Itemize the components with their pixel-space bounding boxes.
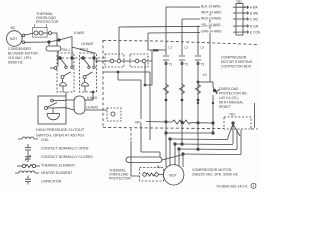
leader lines from thermal text	[34, 24, 35, 28]
TB1 aux dashed boxlet	[107, 108, 121, 121]
relay contact dashed box K1-2	[130, 54, 148, 67]
power wire C y19	[182, 18, 246, 20]
svg-text:COMPRESSOR MOTOR,: COMPRESSOR MOTOR,	[192, 168, 232, 172]
blower motor terminal bottom	[22, 41, 25, 44]
solid vertical right	[254, 103, 256, 128]
svg-text:MOT: MOT	[169, 173, 177, 177]
compressor motor circle	[164, 165, 184, 185]
svg-text:HR1: HR1	[135, 120, 142, 124]
svg-text:6 AWG: 6 AWG	[74, 31, 85, 35]
svg-text:K1: K1	[203, 73, 207, 77]
svg-text:1: 1	[253, 184, 255, 188]
svg-text:CONTACT NORMALLY CLOSED: CONTACT NORMALLY CLOSED	[41, 155, 93, 159]
relay contact dashed box K1-1	[105, 54, 124, 67]
svg-text:PROTECTOR: PROTECTOR	[109, 177, 131, 181]
svg-text:TB3: TB3	[229, 113, 235, 117]
junction dots rows	[165, 132, 167, 134]
thermal OL protector bracket box	[33, 28, 48, 38]
svg-text:B ØB: B ØB	[250, 12, 259, 16]
svg-text:TB1-2: TB1-2	[80, 48, 89, 52]
row wire 4	[179, 148, 237, 151]
contactor pole L3	[197, 26, 199, 150]
legend: contact NO symbol	[25, 144, 31, 153]
high pressure switch solid box	[38, 96, 66, 124]
svg-text:D GR: D GR	[250, 25, 259, 29]
svg-text:A ØA: A ØA	[250, 6, 258, 10]
svg-text:SWITCH, OPEN AT 450 PSI: SWITCH, OPEN AT 450 PSI	[36, 134, 84, 138]
contactor pole L1	[165, 7, 167, 167]
svg-text:C ØC: C ØC	[250, 18, 259, 22]
svg-text:B1: B1	[157, 165, 161, 169]
wire y110 through capsule	[66, 108, 107, 110]
svg-text:THERMAL ELEMENT: THERMAL ELEMENT	[41, 164, 76, 168]
dashed bus line y58	[57, 57, 104, 59]
svg-text:CAPACITOR: CAPACITOR	[41, 180, 62, 184]
row wire 5	[183, 153, 241, 156]
TB2 terminal strip	[236, 4, 243, 36]
svg-text:CONTACTOR BOX: CONTACTOR BOX	[221, 65, 252, 69]
svg-text:PROTECTOR: PROTECTOR	[36, 20, 59, 24]
row wire 1 to OL contact	[166, 132, 213, 134]
svg-text:HIGH PRESSURE CUTOUT: HIGH PRESSURE CUTOUT	[36, 128, 85, 132]
tap from dot down into capsule	[48, 42, 50, 46]
junction dots y100	[197, 102, 199, 104]
relay to coil wire	[145, 50, 152, 85]
svg-text:BLOWER MOTOR: BLOWER MOTOR	[8, 52, 38, 56]
svg-text:115 VAC, 1PH,: 115 VAC, 1PH,	[8, 56, 32, 60]
OL aux contact x213	[212, 82, 214, 87]
K1 coil wire	[148, 49, 166, 51]
svg-text:PROTECTOR RE-: PROTECTOR RE-	[219, 92, 249, 96]
svg-text:L3: L3	[201, 46, 205, 50]
vertical wire x72	[71, 37, 73, 59]
row wire 3	[175, 143, 233, 146]
svg-text:208/230 VAC, 3PH, 50/60 HZ: 208/230 VAC, 3PH, 50/60 HZ	[192, 173, 239, 177]
junction dots on bus	[59, 57, 62, 60]
svg-text:16 AWG: 16 AWG	[81, 42, 94, 46]
svg-text:CONTACT NORMALLY OPEN: CONTACT NORMALLY OPEN	[41, 147, 89, 151]
contact circles	[65, 66, 67, 68]
wire motor top to thermal OL	[25, 33, 34, 35]
svg-text:LAY K4 (OL): LAY K4 (OL)	[219, 96, 239, 100]
legend: thermal element symbol	[17, 165, 22, 167]
overload heater zigzag 2	[180, 84, 185, 94]
S2 contents	[83, 76, 86, 79]
svg-text:RED-14 AWG: RED-14 AWG	[201, 16, 222, 20]
main unit dashed boundary left	[102, 40, 104, 128]
svg-text:50/60 HZ: 50/60 HZ	[8, 61, 24, 65]
power wire D y26	[119, 26, 246, 27]
TB3 plug symbol	[232, 122, 234, 124]
svg-text:L1: L1	[169, 46, 173, 50]
crankcase heater HR1 wire	[140, 122, 213, 124]
svg-text:WITH MANUAL: WITH MANUAL	[219, 101, 244, 105]
svg-text:HEATER ELEMENT: HEATER ELEMENT	[41, 171, 73, 175]
svg-text:MOT: MOT	[10, 37, 17, 41]
row wire 2	[170, 138, 228, 141]
svg-text:BLK-14 AWG: BLK-14 AWG	[201, 4, 221, 8]
wire from S1 box down	[65, 92, 67, 96]
thermal overload protector (compressor) dashed box	[140, 168, 164, 182]
capacitor capsule near motor	[46, 46, 61, 51]
pressure switch box S2 (dashed)	[80, 53, 97, 92]
svg-text:CONDENSER: CONDENSER	[8, 47, 31, 51]
vertical x141	[140, 80, 142, 152]
wire motor bottom	[25, 41, 49, 43]
svg-text:YEL-14 AWG: YEL-14 AWG	[201, 23, 221, 27]
vertical x118 jog	[117, 72, 119, 80]
wire OL to corner down	[52, 33, 58, 46]
svg-text:GRN-14 AWG: GRN-14 AWG	[201, 30, 222, 34]
heater capsule vertical	[74, 96, 85, 114]
legend: capacitor symbol	[25, 176, 31, 185]
svg-text:WHT-14 AWG: WHT-14 AWG	[201, 10, 222, 14]
power wire E y32	[148, 32, 246, 33]
vertical x210	[209, 13, 211, 82]
thermal overload protector circles	[34, 31, 38, 35]
16 AWG diagonal wire	[72, 47, 94, 53]
svg-text:B2: B2	[11, 26, 15, 30]
6 AWG diagonal wire	[49, 37, 72, 43]
overload relay arrow	[216, 90, 221, 94]
svg-text:MOTOR STARTING: MOTOR STARTING	[221, 60, 253, 64]
wire y80	[118, 79, 141, 81]
blower motor B2 circle	[7, 31, 23, 47]
wire y152 to capsule	[141, 152, 160, 157]
wire through contacts	[95, 60, 152, 62]
wire from S2 box down to bend	[85, 92, 93, 100]
svg-text:TB1-1: TB1-1	[62, 48, 71, 52]
svg-text:COIL: COIL	[41, 138, 49, 142]
svg-text:RESET: RESET	[219, 105, 232, 109]
legend: coil symbol	[18, 137, 38, 139]
vertical wire x94	[93, 53, 95, 58]
wire y100 through capsule	[66, 99, 93, 101]
switch blade 2	[83, 58, 89, 66]
overload heater zigzag 3	[196, 84, 201, 94]
svg-text:6 AWG: 6 AWG	[87, 96, 98, 100]
svg-text:OVERLOAD: OVERLOAD	[219, 87, 239, 91]
main unit dashed boundary bottom	[103, 128, 224, 129]
wire to terminal	[43, 32, 48, 34]
svg-text:COMPRESSOR: COMPRESSOR	[221, 56, 247, 60]
svg-text:L2: L2	[185, 46, 189, 50]
vertical feed x119	[118, 27, 120, 59]
switch blade 1	[60, 58, 66, 66]
svg-text:TS 8690-282-14/1-8: TS 8690-282-14/1-8	[216, 185, 247, 189]
blower motor terminal top	[22, 34, 25, 37]
left drop to thermal box	[130, 129, 132, 142]
svg-text:E CONT: E CONT	[250, 31, 260, 35]
heater capsule HR2 horizontal	[126, 157, 162, 163]
white label backgrounds for power wires	[134, 4, 233, 124]
pressure switch box S1 (dashed)	[57, 53, 74, 92]
overload heater zigzag 1	[164, 84, 169, 94]
vertical x150	[149, 72, 151, 140]
TB2 terminal arrows	[243, 6, 249, 9]
svg-text:T1: T1	[169, 63, 173, 67]
OL branch wire y82	[198, 81, 213, 83]
contact drops	[71, 58, 73, 66]
TB3 dashed box	[224, 117, 251, 129]
legend: contact NC symbol	[25, 153, 31, 162]
S1 contents	[61, 76, 64, 79]
wire down from capsule	[57, 51, 59, 66]
svg-text:T2: T2	[185, 63, 189, 67]
legend: heater element symbol	[15, 171, 39, 173]
power wire B y13	[210, 12, 246, 14]
motor feed wires	[169, 139, 171, 166]
circled digit	[251, 183, 256, 188]
contactor pole L2	[181, 19, 183, 144]
svg-text:TB2: TB2	[236, 0, 242, 4]
junction dot	[48, 41, 50, 43]
wire loop y72	[103, 71, 150, 73]
svg-text:16 AWG: 16 AWG	[86, 106, 99, 110]
capsule to row 5 diagonal wire	[162, 155, 183, 161]
main unit dashed boundary top	[103, 41, 258, 45]
power wire A y7	[166, 6, 246, 8]
svg-text:T3: T3	[201, 63, 205, 67]
